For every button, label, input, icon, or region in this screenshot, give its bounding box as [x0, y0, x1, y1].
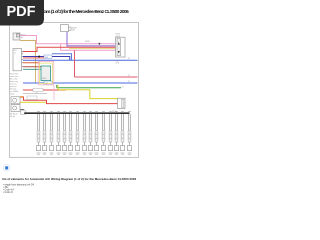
wire violet from K40: [67, 32, 116, 46]
labels under motors: [10, 113, 18, 118]
wire red pin4: [23, 57, 44, 59]
wire olive to nest: [23, 66, 41, 68]
right edge labels: [128, 58, 130, 83]
svg-text:N22: N22: [14, 50, 17, 52]
stub to bus: [20, 109, 24, 111]
svg-text:a1: a1: [122, 86, 124, 88]
wire navy pin3: [23, 57, 70, 61]
svg-text:list of elements for Automatic: list of elements for Automatic A/C Wirin…: [2, 177, 136, 181]
bullet list: [3, 184, 35, 194]
connector drop X13 with fuse: [114, 111, 118, 154]
wire yellow low: [20, 101, 46, 103]
connector drop X2 with fuse: [42, 111, 46, 154]
wire green right: [57, 85, 121, 88]
PDF badge: [0, 0, 44, 26]
svg-text:• Cxxk 4 I: • Cxxk 4 I: [3, 191, 13, 194]
wire red low long: [20, 97, 118, 104]
connector drop X15 with fuse: [127, 111, 131, 154]
wire red mid with label: [23, 89, 66, 91]
wire blue main: [23, 59, 138, 61]
label box on navy: [44, 55, 52, 58]
box K40: [61, 25, 69, 32]
svg-text:X30/4 f: X30/4 f: [85, 41, 91, 43]
wire blue pin2: [52, 54, 72, 61]
connector drop X8 with fuse: [82, 111, 86, 154]
svg-text:a6: a6: [14, 52, 16, 54]
connector drop X3 with fuse: [49, 111, 53, 154]
connector drop X12 with fuse: [108, 111, 112, 154]
blower M2: [11, 105, 20, 112]
svg-text:sh: sh: [36, 92, 38, 94]
connector drop X14 with fuse: [120, 111, 124, 154]
connector drop X5 with fuse: [62, 111, 66, 154]
text column: [10, 74, 19, 96]
main bus: [24, 112, 129, 114]
control unit N22: [13, 49, 22, 71]
wire blue lower main: [23, 82, 138, 84]
connector drop X10 with fuse: [94, 111, 98, 154]
svg-text:15: 15: [128, 75, 130, 77]
connector drop X6 with fuse: [68, 111, 72, 154]
box right lower: [118, 98, 126, 108]
svg-text:415: 415: [45, 57, 48, 59]
svg-text:30: 30: [128, 58, 130, 60]
label above red low: [27, 96, 37, 100]
svg-text:b1: b1: [21, 37, 23, 39]
connector box A32/1: [13, 33, 20, 40]
wire pink A32 to bundle: [20, 36, 116, 51]
wire pink drop from nest: [53, 85, 55, 100]
connector drop X11 with fuse: [101, 111, 105, 154]
connector drop X7 with fuse: [75, 111, 79, 154]
label box on red mid: [33, 88, 43, 91]
wire red pin1 to bundle: [23, 47, 116, 51]
wire orange to nest: [23, 62, 40, 64]
wire tan: [20, 41, 36, 84]
wire yellow right: [58, 85, 118, 99]
svg-text:N10/6: N10/6: [116, 36, 121, 38]
label box on blue lower: [44, 81, 52, 85]
nested boxes pink yellow teal: [38, 62, 54, 85]
svg-text:M2 fan: M2 fan: [10, 116, 15, 118]
blue doc icon: [4, 165, 10, 171]
relay box right N10: [116, 37, 126, 57]
box at bus start: [21, 111, 26, 114]
stub orange: [20, 96, 24, 98]
svg-text:PDF: PDF: [7, 4, 36, 20]
connector drop X1 with fuse: [36, 111, 40, 154]
diagram frame: [10, 23, 139, 158]
wire gray short: [23, 93, 47, 95]
inner connector strip: [117, 39, 121, 56]
wire red right long: [75, 50, 138, 77]
svg-text:shield: shield: [10, 94, 14, 96]
connector drop X9 with fuse: [88, 111, 92, 154]
svg-text:31: 31: [128, 81, 130, 83]
motor M1: [11, 97, 20, 104]
connector drop X4 with fuse: [56, 111, 60, 154]
svg-text:kl15: kl15: [72, 30, 75, 32]
wire teal to nest: [23, 68, 41, 70]
pin ticks: [22, 52, 23, 67]
svg-text:M2/25: M2/25: [42, 78, 47, 80]
wire pale yellow bundle: [69, 48, 116, 50]
